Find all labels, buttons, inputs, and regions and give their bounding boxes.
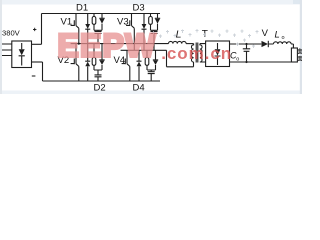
capacitor C0 bbox=[243, 44, 250, 62]
snubber capacitor (V4 cell) bbox=[147, 70, 156, 81]
junction top of C0 bbox=[245, 43, 247, 45]
output rectifier box bbox=[206, 41, 230, 67]
svg-text:.com.cn: .com.cn bbox=[161, 44, 232, 63]
snubber resistor (V4 cell) bbox=[146, 50, 148, 70]
svg-text:L: L bbox=[176, 29, 182, 41]
transformer T primary winding bbox=[191, 44, 193, 62]
wire bottom DC bus bbox=[43, 80, 161, 82]
transistor V1 (IGBT) bbox=[71, 14, 79, 44]
snubber diode (V1 cell) bbox=[99, 14, 104, 31]
frame top strip bbox=[0, 0, 302, 5]
label load (Chinese 负载, drawn as glyph-like marks) bbox=[298, 49, 302, 61]
snubber capacitor (V2 cell) bbox=[94, 70, 102, 81]
wire bridge node B bbox=[121, 49, 167, 51]
svg-text:D3: D3 bbox=[133, 3, 145, 14]
faint gray watermark remnants bbox=[152, 29, 259, 48]
frame bottom strip bbox=[0, 91, 302, 95]
input rectifier box bbox=[12, 41, 32, 68]
transistor V2 (IGBT) bbox=[71, 44, 79, 81]
svg-text:V1: V1 bbox=[61, 16, 73, 27]
frame right border bbox=[300, 0, 302, 94]
inductor L0 bbox=[274, 42, 292, 44]
snubber resistor (V2 cell) bbox=[93, 44, 95, 70]
svg-text:o: o bbox=[236, 56, 239, 62]
wire rectifier + output bbox=[32, 43, 42, 45]
transistor V3 (IGBT) bbox=[126, 14, 134, 51]
diode D1 bbox=[85, 14, 90, 44]
label + (rectifier output) bbox=[33, 28, 36, 31]
junction bottom of C0 bbox=[245, 61, 247, 63]
wire output + rail bbox=[230, 44, 294, 48]
svg-text:L: L bbox=[275, 29, 280, 40]
svg-text:D1: D1 bbox=[76, 3, 88, 14]
wire left DC rail + bbox=[41, 14, 43, 45]
svg-text:D2: D2 bbox=[94, 83, 106, 94]
snubber resistor (V1 cell) bbox=[93, 14, 95, 31]
watermark EEPW bbox=[58, 28, 157, 64]
output rectifier diode bbox=[215, 43, 221, 65]
load resistor bbox=[291, 48, 297, 62]
snubber resistor (V3 cell) bbox=[150, 14, 152, 31]
3-phase input wires bbox=[2, 44, 12, 56]
wire top DC bus bbox=[42, 13, 161, 15]
wire bridge node A to inductor bbox=[71, 43, 169, 45]
svg-text:380V: 380V bbox=[2, 29, 21, 38]
node A junction bbox=[78, 43, 80, 45]
snubber capacitor (V1 cell) bbox=[94, 30, 102, 43]
snubber diode (V4 cell) bbox=[153, 50, 158, 70]
wire L to transformer bbox=[186, 43, 194, 45]
snubber capacitor (V3 cell) bbox=[151, 30, 158, 50]
wire node B drop to transformer bbox=[167, 50, 194, 67]
svg-text:V3: V3 bbox=[117, 16, 129, 27]
frame top right corner patch bbox=[293, 0, 302, 4]
svg-text:EEPW: EEPW bbox=[58, 28, 157, 64]
transformer T secondary winding bbox=[200, 44, 202, 62]
diode D2 bbox=[85, 44, 90, 81]
inductor L bbox=[169, 41, 187, 43]
transistor V4 (IGBT) bbox=[122, 50, 130, 81]
svg-text:o: o bbox=[282, 35, 285, 41]
wire left DC rail - bbox=[42, 62, 44, 81]
snubber diode (V2 cell) bbox=[99, 44, 104, 70]
frame left border bbox=[0, 0, 2, 94]
wire output - rail bbox=[230, 61, 292, 63]
wire secondary to output box bbox=[200, 44, 206, 62]
svg-text:V: V bbox=[262, 28, 269, 39]
diode V bbox=[267, 41, 269, 47]
input rectifier diode bbox=[19, 43, 25, 66]
wire rectifier - output bbox=[32, 61, 43, 63]
diode D3 bbox=[142, 14, 147, 51]
snubber diode (V3 cell) bbox=[155, 14, 160, 31]
label - (rectifier output) bbox=[32, 75, 36, 77]
transformer T core bbox=[196, 43, 198, 63]
svg-text:D4: D4 bbox=[133, 83, 145, 94]
diode D4 bbox=[137, 50, 142, 81]
